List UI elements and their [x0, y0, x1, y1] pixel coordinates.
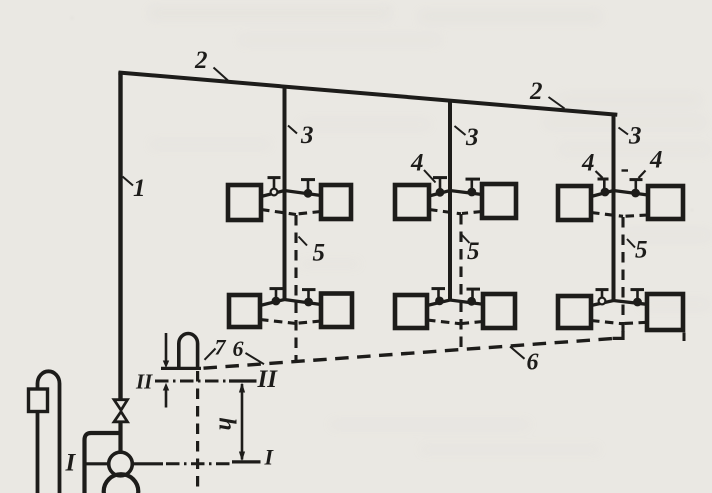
valve 4 G1 top-right — [301, 180, 315, 197]
label 4 (third riser, right valve) — [622, 147, 663, 179]
label 2 (right) — [529, 78, 565, 109]
valve on riser 1 (gate valve) — [114, 400, 128, 422]
wire: bypass pipe — [85, 433, 121, 493]
radiator G1 bottom-left — [229, 295, 260, 327]
svg-text:7: 7 — [215, 335, 227, 360]
wire: riser 1 lower segment — [118, 422, 122, 453]
wire: G1 top return (dashed) — [261, 210, 321, 215]
wire: G2 bottom supply pipe — [427, 300, 483, 306]
radiator G2 top-right — [482, 184, 516, 218]
radiator G1 bottom-right — [321, 294, 352, 328]
label 5 (second) — [461, 234, 480, 265]
label 4 (third riser, left valve) — [581, 150, 603, 178]
label 6 (near 7) — [233, 336, 265, 364]
wire: riser 3 (third) — [612, 113, 616, 302]
valve G2 bottom-right — [467, 289, 481, 305]
label 4 (second riser valve) — [410, 150, 436, 183]
level line II-II (dash-dot) — [155, 380, 257, 383]
svg-text:4: 4 — [410, 150, 424, 177]
valve 4 G3 top-right — [630, 180, 643, 197]
label II (right) — [257, 366, 279, 393]
stray print mark — [683, 333, 686, 342]
wire: G2 top return (dashed) — [429, 210, 482, 214]
valve G1 bottom-left — [270, 289, 284, 305]
wire: G3 top return (dashed) — [591, 213, 648, 217]
dimension line h — [239, 383, 245, 462]
label 7 — [205, 335, 227, 360]
radiator G3 bottom-right — [647, 294, 683, 330]
valve 4 G2 top-left — [433, 178, 447, 196]
svg-text:6: 6 — [233, 336, 244, 361]
valve G1 bottom-right — [302, 290, 316, 306]
wire: G3 bottom supply pipe — [591, 301, 647, 306]
valve G2 top-right — [466, 179, 481, 195]
radiator G3 top-right — [648, 186, 683, 219]
svg-text:I: I — [264, 445, 275, 470]
svg-text:6: 6 — [527, 350, 539, 376]
wire: G1 bottom return (dashed) — [260, 320, 321, 324]
svg-text:3: 3 — [628, 123, 642, 150]
wire: dashed vertical below hook — [196, 371, 199, 493]
valve 4 G3 top-left — [598, 178, 609, 195]
wire: pump suction line — [85, 462, 164, 465]
wire: G2 bottom return (dashed) — [427, 320, 483, 324]
valve G2 bottom-left — [432, 289, 446, 305]
wire: supply main 2 — [119, 73, 618, 115]
svg-text:1: 1 — [133, 175, 146, 202]
radiator G3 top-left — [558, 186, 591, 220]
wire: return main 6 (dashed) — [204, 339, 614, 369]
radiator G2 top-left — [395, 185, 429, 219]
radiator G1 top-right — [321, 185, 351, 219]
svg-text:I: I — [65, 450, 77, 477]
svg-text:5: 5 — [467, 238, 480, 265]
wire: G1 return drop 5 (dashed) — [294, 215, 297, 362]
radiator G1 top-left — [228, 185, 261, 220]
arrow (down) at overflow level — [163, 333, 169, 368]
wire: G3 drop elbow to return main — [613, 331, 624, 338]
pump — [109, 452, 133, 476]
label II (left) — [135, 370, 153, 394]
fitting box on expansion pipe — [29, 389, 48, 412]
expansion pipe (inverted U) — [38, 371, 60, 493]
wire: G3 bottom return (dashed) — [591, 321, 647, 324]
label 5 (third) — [627, 237, 648, 264]
svg-text:II: II — [257, 366, 279, 393]
wire: overflow level line — [161, 367, 201, 370]
label I (left) — [65, 450, 77, 477]
wire: G1 bottom supply pipe — [260, 300, 321, 306]
svg-text:h: h — [214, 417, 240, 430]
svg-text:II: II — [135, 370, 153, 394]
svg-text:3: 3 — [465, 124, 479, 151]
radiator G2 bottom-left — [395, 295, 427, 328]
svg-text:2: 2 — [529, 78, 543, 105]
wire: G3 return drop 5 (dashed) — [621, 217, 624, 332]
label h — [214, 417, 240, 430]
label 3 (first riser) — [288, 122, 314, 149]
label 3 (third riser) — [619, 123, 642, 150]
svg-text:4: 4 — [649, 147, 663, 174]
valve 4 G1 top-left — [268, 178, 281, 196]
radiator G3 bottom-left — [558, 296, 591, 328]
wire: G3 top supply pipe — [591, 191, 648, 197]
wire: riser 3 (first) — [283, 86, 287, 300]
svg-text:4: 4 — [581, 150, 595, 177]
wire: G2 return drop 5 (dashed) — [459, 214, 462, 349]
svg-text:2: 2 — [194, 47, 208, 74]
wire: G2 top supply pipe — [429, 191, 482, 197]
boiler (lower circle) — [104, 474, 139, 493]
svg-text:5: 5 — [635, 237, 648, 264]
svg-text:3: 3 — [300, 122, 314, 149]
svg-text:5: 5 — [313, 240, 326, 267]
label I (right) — [264, 445, 275, 470]
wire: riser 3 (second) — [448, 100, 452, 302]
arrow (up) to level II — [163, 383, 169, 408]
valve G3 bottom-left — [596, 290, 609, 305]
label 2 (left) — [194, 47, 228, 81]
overflow hook pipe 7 — [179, 334, 198, 371]
radiator G2 bottom-right — [483, 294, 515, 328]
label 5 (first) — [299, 237, 326, 267]
wire: main riser 1 — [118, 72, 122, 400]
level line I-I (dash-dot) — [166, 462, 261, 464]
label 1 — [123, 175, 146, 202]
label 3 (second riser) — [455, 124, 479, 151]
valve G3 bottom-right — [631, 290, 645, 306]
label 6 (return main) — [510, 347, 539, 376]
wire: G1 top supply pipe — [261, 191, 321, 197]
